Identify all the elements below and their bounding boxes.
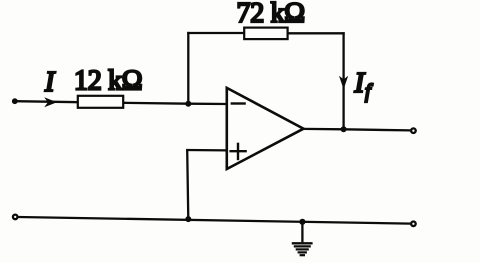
op-amp U1 triangle — [227, 88, 304, 169]
current arrow I — [44, 97, 57, 107]
bottom rail terminal (open circle, right) — [411, 222, 416, 227]
svg-text:72 kΩ: 72 kΩ — [237, 0, 305, 29]
current arrow If — [339, 76, 348, 89]
wire: non-inverting input horizontal segment — [186, 149, 227, 152]
svg-text:f: f — [365, 81, 373, 103]
wire: op-amp output to output node — [303, 128, 344, 131]
wire: input terminal to resistor R1 — [15, 101, 79, 102]
wire: feedback top right segment — [287, 32, 345, 34]
input terminal (filled dot, left) — [12, 98, 18, 104]
node A (junction of R1, R2, inverting input) — [185, 101, 191, 107]
ground stem wire — [301, 222, 303, 243]
bottom rail terminal (open circle, left) — [13, 215, 18, 220]
wire: output node to output terminal — [344, 129, 411, 130]
ground symbol bars — [292, 242, 313, 244]
junction dot: non-inverting branch on bottom rail — [185, 216, 191, 222]
op-amp inverting (-) pin mark — [231, 102, 246, 104]
output node (junction with feedback) — [341, 126, 347, 132]
wire: node A up to feedback branch — [187, 32, 189, 104]
wire: inverting input (node A to op-amp) — [188, 103, 227, 106]
svg-text:12 kΩ: 12 kΩ — [74, 65, 142, 96]
svg-text:I: I — [44, 67, 56, 98]
wire: resistor R1 to node A — [123, 102, 188, 105]
wire: bottom rail — [18, 217, 410, 224]
svg-text:I: I — [354, 67, 366, 99]
resistor R2 body — [244, 28, 287, 39]
output terminal (open circle, right) — [411, 128, 416, 133]
wire: feedback top left segment — [187, 32, 245, 34]
op-amp non-inverting (+) pin mark — [229, 150, 246, 152]
junction dot: ground tap on bottom rail — [299, 219, 305, 225]
resistor R1 body — [78, 96, 123, 108]
wire: feedback right vertical down to output node — [342, 32, 344, 129]
wire: non-inverting input vertical down to bottom rail — [187, 150, 188, 219]
